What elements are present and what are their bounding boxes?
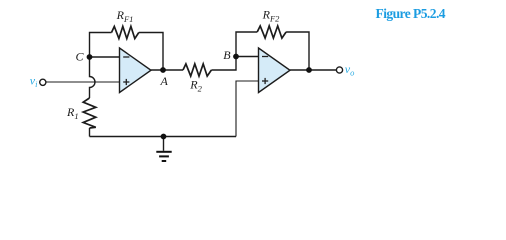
svg-text:B: B <box>223 48 231 62</box>
svg-text:C: C <box>76 50 85 64</box>
svg-text:A: A <box>160 74 169 88</box>
svg-text:Figure P5.2.4: Figure P5.2.4 <box>376 6 446 21</box>
